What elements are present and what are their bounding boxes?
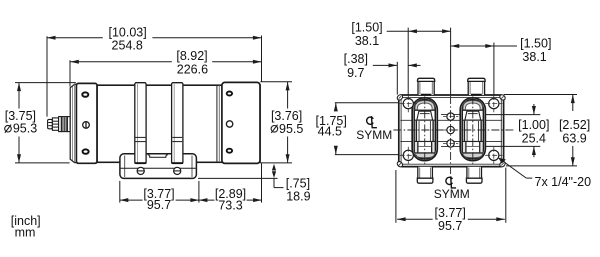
svg-text:[2.52]: [2.52] <box>559 118 590 132</box>
svg-text:73.3: 73.3 <box>218 198 242 212</box>
svg-text:[8.92]: [8.92] <box>176 49 207 63</box>
svg-text:226.6: 226.6 <box>177 62 208 76</box>
svg-text:38.1: 38.1 <box>355 34 379 48</box>
svg-text:254.8: 254.8 <box>112 38 143 52</box>
svg-text:mm: mm <box>15 226 36 240</box>
svg-text:7x 1/4"-20: 7x 1/4"-20 <box>535 175 592 189</box>
svg-text:SYMM: SYMM <box>356 128 392 142</box>
svg-text:95.5: 95.5 <box>279 122 303 136</box>
svg-text:[1.50]: [1.50] <box>520 36 551 50</box>
svg-text:63.9: 63.9 <box>562 132 586 146</box>
svg-text:SYMM: SYMM <box>434 187 470 201</box>
svg-text:9.7: 9.7 <box>347 66 364 80</box>
svg-text:95.7: 95.7 <box>438 219 462 233</box>
svg-text:18.9: 18.9 <box>286 189 310 203</box>
svg-text:[1.50]: [1.50] <box>351 21 382 35</box>
svg-text:[1.00]: [1.00] <box>518 118 549 132</box>
svg-text:95.7: 95.7 <box>147 198 171 212</box>
svg-text:38.1: 38.1 <box>522 50 546 64</box>
svg-text:[.38]: [.38] <box>344 52 368 66</box>
svg-text:44.5: 44.5 <box>318 124 342 138</box>
svg-text:[.75]: [.75] <box>286 176 310 190</box>
svg-text:[10.03]: [10.03] <box>108 25 146 39</box>
svg-text:95.3: 95.3 <box>13 122 37 136</box>
svg-text:25.4: 25.4 <box>522 132 546 146</box>
